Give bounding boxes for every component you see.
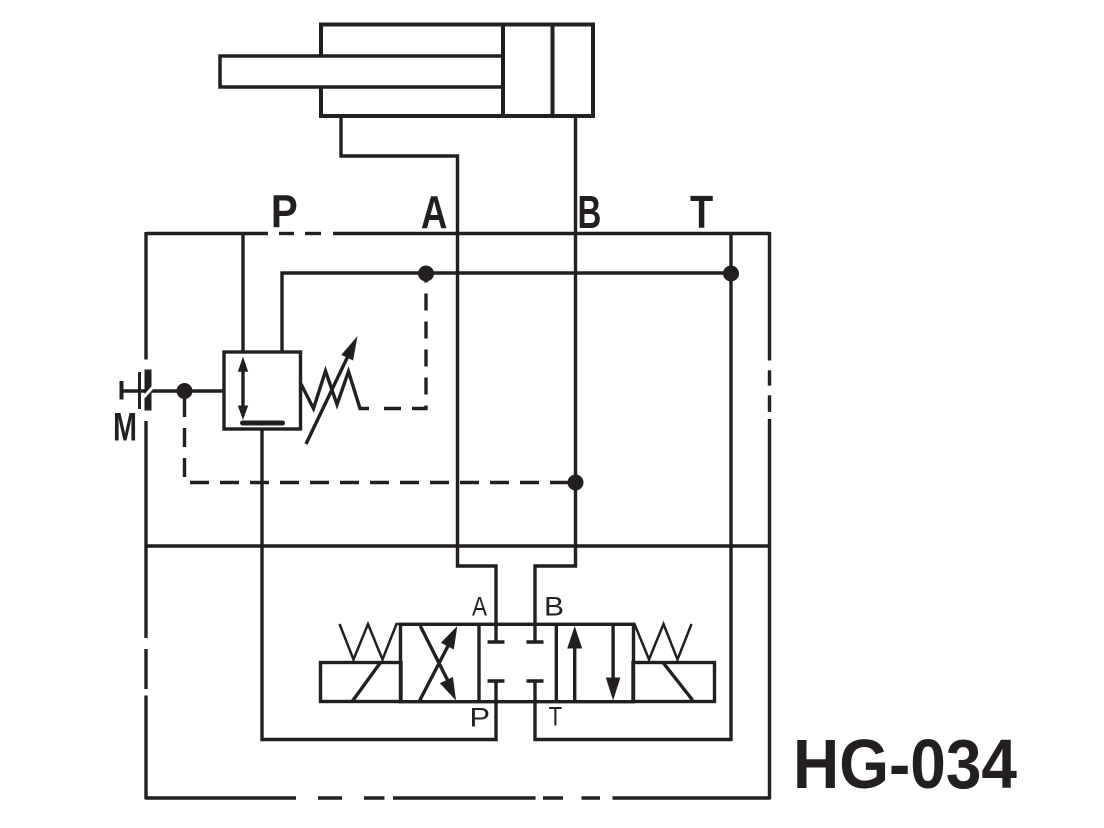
blocked port T cap xyxy=(527,679,544,682)
wire B: cylinder cap-end to valve port B xyxy=(535,114,576,642)
gauge port M symbol xyxy=(120,381,124,400)
junction dot on T line xyxy=(723,266,739,282)
reducing valve flow arrow xyxy=(241,364,244,414)
right position arrows xyxy=(573,646,576,701)
junction dot gauge node xyxy=(177,383,193,399)
spring left xyxy=(340,624,402,660)
dashed drain wire from gauge node to B line xyxy=(185,398,571,483)
enclosure right edge xyxy=(768,232,771,361)
enclosure left edge xyxy=(144,232,147,360)
solenoid SOL-b box xyxy=(633,663,715,702)
enclosure top edge with P port dashes xyxy=(146,232,268,235)
adjustability arrow xyxy=(306,356,348,444)
cylinder rod xyxy=(220,56,503,87)
svg-text:A: A xyxy=(421,186,448,238)
wire reduced-pressure sense to T line xyxy=(282,273,731,352)
reducing valve spring xyxy=(301,371,369,409)
spring right xyxy=(633,624,692,660)
cylinder piston xyxy=(501,25,505,117)
svg-text:A: A xyxy=(472,592,487,622)
dashed pilot wire from spring to tap xyxy=(384,281,426,409)
reducing valve drain bar xyxy=(243,421,283,426)
pressure reducing valve V1 body xyxy=(224,352,301,429)
left position crossed arrows xyxy=(420,644,449,701)
svg-text:HG-034: HG-034 xyxy=(793,725,1017,803)
blocked port P cap xyxy=(488,679,505,682)
wire reduced P to directional valve port P xyxy=(262,429,496,740)
svg-text:T: T xyxy=(690,186,713,238)
solenoid SOL-a box xyxy=(321,663,402,702)
wire P feed from top edge to reducing valve xyxy=(241,234,244,353)
svg-text:T: T xyxy=(549,702,563,732)
blocked port A cap xyxy=(488,640,505,643)
wire T: valve port T to top edge T xyxy=(535,234,731,740)
module divider line xyxy=(146,544,770,547)
blocked port B cap xyxy=(527,640,544,643)
svg-text:M: M xyxy=(113,406,137,450)
svg-text:P: P xyxy=(470,703,491,733)
directional valve U1 body xyxy=(401,624,634,701)
svg-text:P: P xyxy=(271,186,298,238)
junction dot pilot tap xyxy=(418,266,434,282)
svg-text:B: B xyxy=(544,592,564,622)
junction dot on B line xyxy=(568,475,584,491)
enclosure bottom edge xyxy=(146,796,296,799)
wire A: cylinder rod-end to valve port A xyxy=(341,114,496,642)
svg-text:B: B xyxy=(578,186,602,238)
cylinder CYL1 body xyxy=(321,25,593,117)
